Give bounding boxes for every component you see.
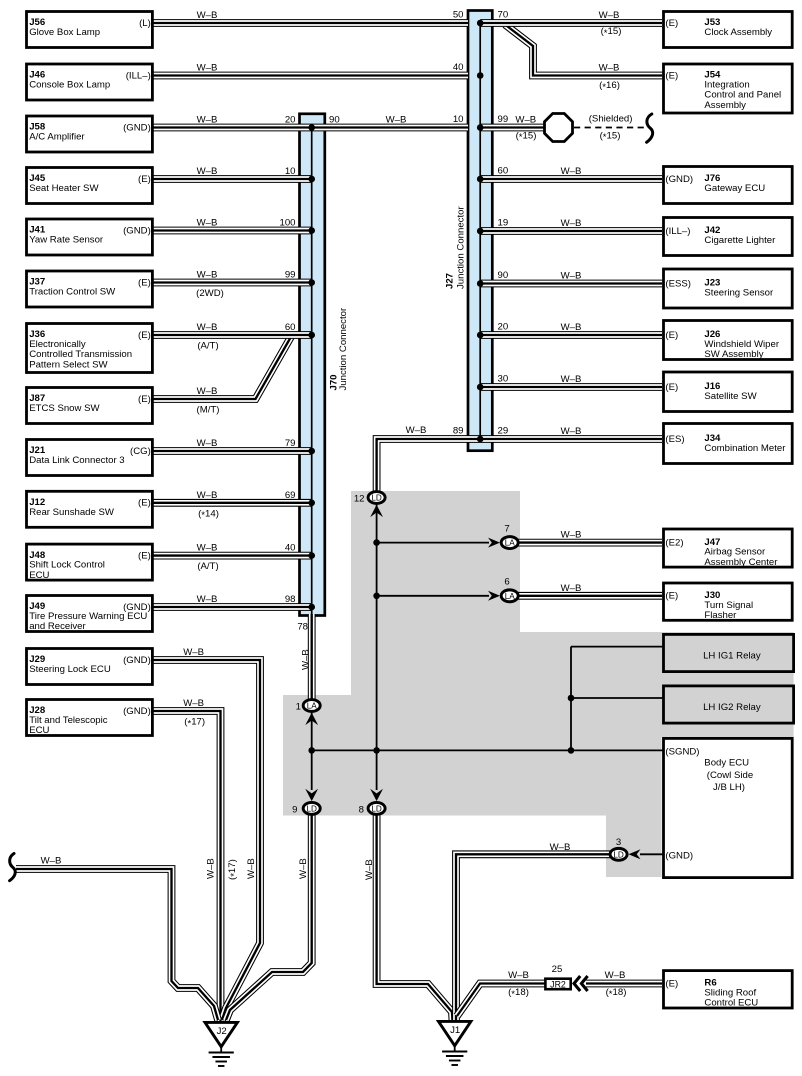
svg-text:(CG): (CG) [130,446,151,457]
svg-text:J/B LH): J/B LH) [713,782,745,793]
component J58 A/C Amplifier [27,116,153,152]
svg-text:Assembly Center: Assembly Center [704,557,778,568]
wire LD8 to ground J1 [377,812,453,1021]
component J49 Tire Pressure Warning ECU [27,596,153,632]
component R6 Sliding Roof Control ECU [664,971,793,1008]
svg-text:19: 19 [498,218,509,229]
wire LD12 to LD8 vertical bus [376,505,378,791]
svg-text:Gateway ECU: Gateway ECU [704,183,765,194]
svg-text:ECU: ECU [29,725,49,736]
svg-text:98: 98 [285,594,296,605]
svg-text:(E): (E) [138,394,151,405]
svg-text:(*17): (*17) [227,859,240,880]
wire J29 to ground J2 [153,660,260,1020]
svg-text:J2: J2 [217,1026,227,1037]
svg-text:Body ECU: Body ECU [704,758,749,769]
junction connector J27 [468,11,492,451]
svg-text:W–B: W–B [515,114,536,125]
wire LA6 to J30 [515,592,662,600]
svg-text:(Shielded): (Shielded) [589,113,633,124]
wire J58 to J70 pin 20/90 to J27 pin 10 [153,124,468,132]
svg-text:90: 90 [329,115,340,126]
svg-text:100: 100 [279,218,295,229]
wire J56 to J70/J27 pin 50 [153,19,468,27]
svg-text:10: 10 [285,166,296,177]
wire LD12 up to J27 pin 89 and to J34 [377,439,662,492]
relay LH IG2 [664,686,794,723]
wire to LH IG2 relay [571,697,663,699]
wire J70 pin 78 down to LA1 [308,614,316,702]
svg-text:8: 8 [359,804,364,815]
svg-text:79: 79 [285,438,296,449]
connector LA pin 1 [303,700,320,712]
wire JR2 to R6 [586,980,662,988]
svg-text:W–B: W–B [197,438,218,449]
svg-text:(E): (E) [665,978,678,989]
connector LA pin 7 [501,537,518,549]
svg-text:W–B: W–B [561,166,582,177]
wire J28 to ground J2 [153,711,221,1021]
wire J27 pin 20 to J26 [480,331,662,339]
svg-text:40: 40 [453,62,464,73]
svg-text:(*15): (*15) [601,26,622,39]
wire J54 branch diagonal [505,25,662,76]
wire J27 pin 60 to J76 [480,175,662,183]
svg-text:(E): (E) [665,18,678,29]
svg-text:Steering Lock ECU: Steering Lock ECU [29,664,111,675]
svg-text:W–B: W–B [197,115,218,126]
shielded dashed line [574,127,645,129]
wire J27 pin 99 to shield octagon [480,124,548,132]
svg-text:LH IG2 Relay: LH IG2 Relay [703,702,761,713]
svg-text:(2WD): (2WD) [196,288,224,299]
svg-text:(*16): (*16) [599,80,620,93]
svg-text:30: 30 [498,374,509,385]
pin numbers J70 left [279,115,308,633]
svg-text:W–B: W–B [561,530,582,541]
svg-text:99: 99 [498,114,509,125]
pin numbers J27 right [498,10,509,437]
wire to LH IG1 relay [571,646,663,648]
svg-text:Flasher: Flasher [704,610,737,621]
component J26 Windshield Wiper SW Assembly [664,321,793,360]
svg-text:W–B: W–B [301,649,312,670]
relay LH IG1 [664,634,794,671]
junction connector J70 [300,114,325,616]
component J47 Airbag Sensor Assembly Center [664,529,793,567]
svg-text:78: 78 [297,622,308,633]
connector LD pin 8 [368,802,385,814]
svg-text:3: 3 [616,837,621,848]
svg-text:J27: J27 [445,273,456,289]
component J37 Traction Control SW [27,271,153,307]
svg-text:W–B: W–B [386,115,407,126]
svg-text:W–B: W–B [599,63,620,74]
svg-text:W–B: W–B [197,10,218,21]
svg-text:W–B: W–B [550,842,571,853]
wire J27 pin 30 to J16 [480,383,662,391]
svg-text:(*15): (*15) [516,130,537,143]
svg-text:12: 12 [354,494,365,505]
svg-text:90: 90 [498,270,509,281]
svg-text:W–B: W–B [561,374,582,385]
svg-text:SW Assembly: SW Assembly [704,349,763,360]
svg-text:29: 29 [498,426,509,437]
component J21 Data Link Connector 3 [27,440,153,476]
wire J36 to J70 pin 60 [153,331,312,339]
wire J46 to J27 pin 40 [153,72,468,80]
wire J21 to J70 pin 79 [153,447,312,455]
svg-text:1: 1 [296,702,301,713]
svg-text:(E): (E) [665,70,678,81]
component J56 Glove Box Lamp [27,12,153,48]
wire J12 to J70 pin 69 [153,499,312,507]
J27 pin junction dots [477,20,484,443]
wire LD3 to Body ECU GND [640,853,663,855]
svg-text:Cigarette Lighter: Cigarette Lighter [704,235,776,246]
svg-text:(GND): (GND) [123,655,151,666]
svg-text:Assembly: Assembly [704,100,746,111]
svg-text:W–B: W–B [206,858,217,879]
wire J45 to J70 pin 10 [153,175,312,183]
wire relay branch vertical [570,647,572,751]
component J12 Rear Sunshade SW [27,491,153,527]
svg-text:W–B: W–B [197,63,218,74]
svg-text:6: 6 [504,577,509,588]
svg-text:60: 60 [498,166,509,177]
svg-text:(E): (E) [665,330,678,341]
svg-text:(GND): (GND) [123,122,151,133]
svg-text:W–B: W–B [508,970,529,981]
svg-text:(ES): (ES) [665,434,684,445]
wire left shield pigtail to ground J2 [16,869,218,1020]
wire LD3 to ground J1 [456,854,612,1021]
svg-text:W–B: W–B [197,386,218,397]
svg-text:Junction Connector: Junction Connector [338,307,349,390]
svg-text:(ILL–): (ILL–) [126,70,151,81]
svg-text:(GND): (GND) [123,706,151,717]
svg-text:(A/T): (A/T) [197,561,218,572]
svg-text:(E): (E) [665,382,678,393]
svg-text:W–B: W–B [599,10,620,21]
svg-text:20: 20 [498,322,509,333]
wire SGND horizontal to Body ECU [312,749,663,751]
component J16 Satellite SW [664,372,793,412]
svg-text:(GND): (GND) [665,850,693,861]
svg-text:J1: J1 [450,1025,460,1036]
harness junction dots [308,539,574,753]
svg-text:ECU: ECU [29,570,49,581]
svg-text:Junction Connector: Junction Connector [456,206,467,289]
svg-text:W–B: W–B [246,858,257,879]
svg-text:60: 60 [285,322,296,333]
svg-text:Yaw Rate Sensor: Yaw Rate Sensor [29,235,104,246]
wire J87 diagonal to J70 pin 60 [153,335,292,399]
wire branch to LA7 [377,542,489,544]
wire J37 to J70 pin 99 [153,279,312,287]
component J87 ETCS Snow SW [27,388,153,424]
shield continuation squiggle left [10,854,16,881]
svg-text:LD: LD [371,804,382,813]
svg-text:(E): (E) [138,174,151,185]
svg-text:(*18): (*18) [606,987,627,1000]
svg-text:LD: LD [371,494,382,503]
svg-text:9: 9 [292,804,297,815]
connector LD pin 3 [610,848,627,860]
svg-text:(GND): (GND) [123,225,151,236]
svg-text:LD: LD [306,804,317,813]
wire J27 pin 70 to J53 [480,19,662,27]
svg-text:and Receiver: and Receiver [29,621,86,632]
svg-text:W–B: W–B [197,490,218,501]
wire J27 pin 19 to J42 [480,227,662,235]
svg-text:W–B: W–B [197,543,218,554]
svg-text:JR2: JR2 [550,980,566,990]
svg-text:Combination Meter: Combination Meter [704,443,786,454]
component J46 Console Box Lamp [27,64,153,100]
svg-text:(E): (E) [138,330,151,341]
svg-text:Traction Control SW: Traction Control SW [29,287,116,298]
wire J27 pin 90 to J23 [480,280,662,288]
svg-text:Clock Assembly: Clock Assembly [704,27,772,38]
svg-text:(ESS): (ESS) [665,278,691,289]
svg-text:W–B: W–B [183,698,204,709]
JR2 double chevron [574,976,580,991]
svg-text:W–B: W–B [197,218,218,229]
svg-text:70: 70 [498,10,509,21]
svg-text:W–B: W–B [197,594,218,605]
pin numbers J27 left [453,10,464,437]
svg-text:(E): (E) [138,550,151,561]
svg-text:(E): (E) [138,498,151,509]
component J29 Steering Lock ECU [27,649,153,685]
svg-text:(GND): (GND) [665,174,693,185]
shielded-cable octagon [545,114,573,142]
wire J41 to J70 pin 100 [153,227,312,235]
svg-text:Control ECU: Control ECU [704,998,758,1009]
svg-text:LA: LA [307,702,318,711]
svg-text:ETCS Snow SW: ETCS Snow SW [29,403,100,414]
svg-text:Glove Box Lamp: Glove Box Lamp [29,27,100,38]
wire branch to LA6 [377,595,489,597]
svg-text:20: 20 [285,115,296,126]
connector LD pin 9 [303,802,320,814]
connector LD pin 12 [368,492,385,504]
svg-text:LH IG1 Relay: LH IG1 Relay [703,651,761,662]
svg-text:Steering Sensor: Steering Sensor [704,288,774,299]
component J34 Combination Meter [664,424,793,464]
svg-text:25: 25 [552,964,563,975]
component J28 Tilt and Telescopic ECU [27,700,153,736]
svg-text:10: 10 [453,114,464,125]
svg-text:50: 50 [453,10,464,21]
component J30 Turn Signal Flasher [664,583,793,620]
wire LA1 to LD9 vertical [311,712,313,790]
connector JR2 [545,979,570,990]
J70 pin junction dots [308,124,315,610]
svg-text:Rear Sunshade SW: Rear Sunshade SW [29,507,115,518]
svg-text:W–B: W–B [41,856,62,867]
svg-text:W–B: W–B [197,166,218,177]
svg-text:W–B: W–B [561,583,582,594]
wire J48 to J70 pin 40 [153,552,312,560]
svg-text:(*14): (*14) [198,508,219,521]
svg-text:W–B: W–B [406,425,427,436]
svg-text:(E2): (E2) [665,537,683,548]
svg-text:LA: LA [505,539,516,548]
svg-text:W–B: W–B [197,322,218,333]
svg-text:Satellite SW: Satellite SW [704,391,757,402]
svg-text:69: 69 [285,490,296,501]
svg-text:(Cowl Side: (Cowl Side [707,770,753,781]
svg-text:(*18): (*18) [508,987,529,1000]
svg-text:(ILL–): (ILL–) [665,226,690,237]
component J45 Seat Heater SW [27,168,153,204]
component J36 ECT Pattern Select SW [27,324,153,373]
component J42 Cigarette Lighter [664,218,793,256]
svg-text:(E): (E) [138,277,151,288]
wire JR2 to ground J1 [457,984,546,1017]
svg-text:A/C Amplifier: A/C Amplifier [29,132,85,143]
wire LD9 to ground J2 [226,812,312,1020]
svg-text:(E): (E) [665,591,678,602]
shield continuation squiggle right [647,114,653,142]
svg-text:W–B: W–B [561,322,582,333]
ground J2 [205,1022,237,1046]
svg-text:(L): (L) [139,18,151,29]
connector LA pin 6 [501,590,518,602]
svg-text:7: 7 [504,524,509,535]
svg-text:W–B: W–B [605,970,626,981]
component J53 Clock Assembly [664,12,793,48]
wire J49 to J70 pin 98 [153,603,312,611]
svg-text:LD: LD [613,850,624,859]
component J41 Yaw Rate Sensor [27,219,153,255]
J27 internal bus [479,23,481,439]
svg-text:W–B: W–B [561,271,582,282]
ground J1 [439,1021,471,1045]
component J54 Integration Control and Panel Assembly [664,64,793,113]
harness shading region [283,491,794,877]
component J23 Steering Sensor [664,269,793,308]
svg-text:W–B: W–B [561,426,582,437]
component J48 Shift Lock Control ECU [27,544,153,580]
svg-text:W–B: W–B [183,647,204,658]
component Body ECU (Cowl Side J/B LH) [664,738,793,877]
svg-text:89: 89 [453,426,464,437]
svg-text:(SGND): (SGND) [665,746,699,757]
svg-text:Data Link Connector 3: Data Link Connector 3 [29,455,124,466]
svg-text:W–B: W–B [197,270,218,281]
svg-text:LA: LA [505,592,516,601]
svg-text:(*15): (*15) [600,130,621,143]
svg-text:40: 40 [285,543,296,554]
svg-text:(*17): (*17) [184,717,205,730]
svg-text:Pattern Select SW: Pattern Select SW [29,359,108,370]
J70 internal bus [311,128,313,615]
svg-text:W–B: W–B [364,859,375,880]
wire LA7 to J47 [515,539,662,547]
svg-text:Seat Heater SW: Seat Heater SW [29,183,99,194]
svg-text:99: 99 [285,270,296,281]
svg-text:(M/T): (M/T) [197,405,220,416]
svg-text:(A/T): (A/T) [197,341,218,352]
svg-text:W–B: W–B [561,218,582,229]
svg-text:Console Box Lamp: Console Box Lamp [29,80,110,91]
component J76 Gateway ECU [664,167,793,204]
svg-text:W–B: W–B [298,858,309,879]
